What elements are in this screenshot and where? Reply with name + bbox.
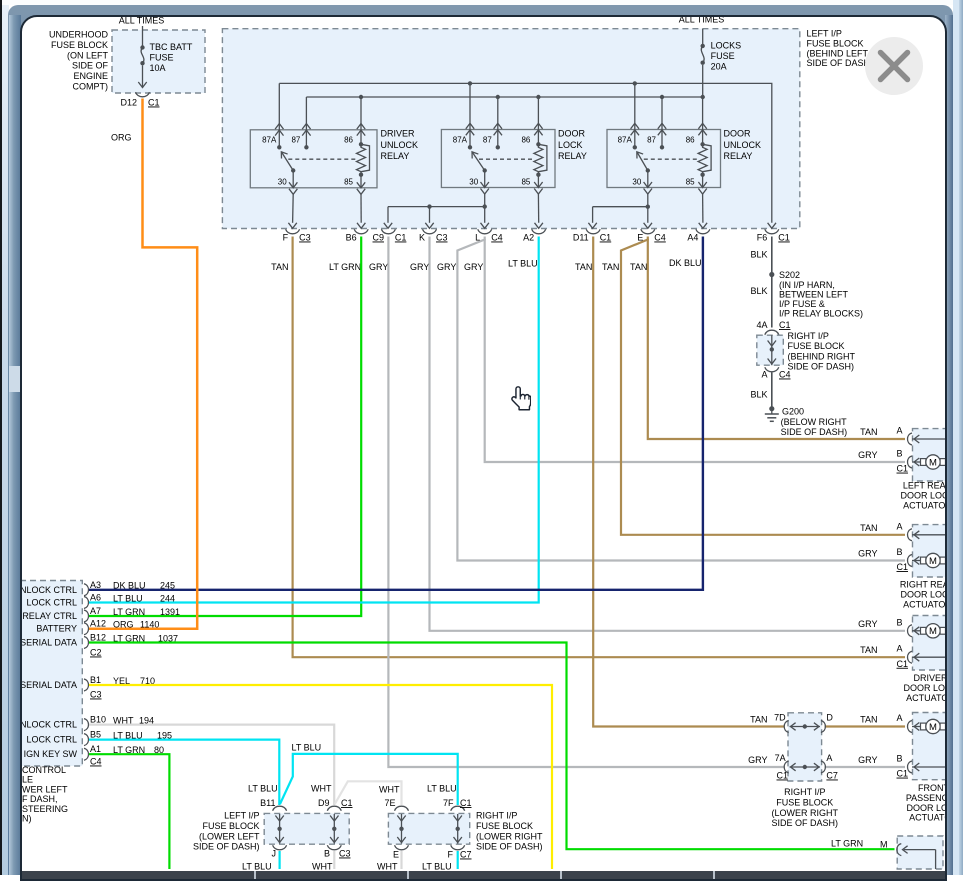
svg-text:(BELOW RIGHT: (BELOW RIGHT <box>781 417 848 427</box>
underhood fuse block box <box>112 30 205 93</box>
svg-text:ACTUATOR: ACTUATOR <box>906 693 945 703</box>
relay K2 (door lock) pin 30 exit <box>484 171 486 188</box>
wire LOCKS fuse to bus <box>702 65 704 97</box>
relay K3 (door unlock) pin 30 exit <box>647 171 649 188</box>
wire relay K1 pin85 to connector B6 <box>360 194 362 223</box>
svg-text:ORG: ORG <box>113 620 134 630</box>
svg-text:(LOWER LEFT: (LOWER LEFT <box>199 831 260 841</box>
right I/P fuse block (lower right) box <box>788 713 822 781</box>
wire DK BLU A4 to module A3 <box>89 237 703 590</box>
svg-text:C4: C4 <box>491 233 503 243</box>
svg-text:FUSE BLOCK: FUSE BLOCK <box>807 38 864 48</box>
svg-text:1140: 1140 <box>140 620 159 630</box>
wire WHT below B <box>333 851 335 869</box>
svg-text:C4: C4 <box>90 757 102 767</box>
svg-text:E: E <box>393 850 399 860</box>
svg-text:UNLOCK: UNLOCK <box>381 140 419 150</box>
svg-text:B6: B6 <box>346 233 357 243</box>
svg-text:85: 85 <box>344 178 353 187</box>
svg-text:30: 30 <box>278 178 287 187</box>
svg-text:RIGHT REAR: RIGHT REAR <box>900 580 945 590</box>
svg-text:GRY: GRY <box>369 262 388 272</box>
svg-text:C1: C1 <box>897 769 909 779</box>
wire TAN fuse block D to front passenger actuator A <box>825 725 905 727</box>
svg-text:B11: B11 <box>260 798 275 808</box>
svg-text:LEFT I/P: LEFT I/P <box>224 811 259 821</box>
svg-text:B1: B1 <box>90 675 101 685</box>
svg-text:LT BLU: LT BLU <box>427 784 457 794</box>
svg-text:87: 87 <box>291 136 300 145</box>
svg-text:ENGINE: ENGINE <box>73 71 108 81</box>
svg-text:M: M <box>929 556 937 567</box>
svg-text:C1: C1 <box>897 659 909 669</box>
svg-text:DOOR LOCK: DOOR LOCK <box>906 803 945 813</box>
svg-text:TAN: TAN <box>750 714 767 724</box>
svg-text:TAN: TAN <box>860 427 877 437</box>
svg-text:TAN: TAN <box>860 523 877 533</box>
svg-text:30: 30 <box>632 178 641 187</box>
svg-text:TAN: TAN <box>630 262 647 272</box>
svg-text:SIDE OF DASH): SIDE OF DASH) <box>788 362 855 372</box>
connector arc at x=484.7 (L/C4) <box>478 229 492 234</box>
connector arc at x=771.8 (F6/C1) <box>765 229 779 234</box>
svg-text:B10: B10 <box>90 715 106 725</box>
dialog frame left scrollbar patch <box>9 366 20 392</box>
svg-text:D11: D11 <box>573 233 589 243</box>
junction dots on 87A rail <box>468 81 472 85</box>
relay K2 (door lock) pin 86 and coil <box>537 97 539 144</box>
svg-text:WHT: WHT <box>379 785 400 795</box>
svg-text:S202: S202 <box>779 270 800 280</box>
svg-text:SIDE OF DASH): SIDE OF DASH) <box>781 427 848 437</box>
svg-text:87A: 87A <box>453 136 468 145</box>
wire YEL B1 down to bottom <box>89 685 552 869</box>
svg-text:C1: C1 <box>148 98 160 108</box>
svg-text:C1: C1 <box>460 798 472 808</box>
svg-text:245: 245 <box>160 581 175 591</box>
svg-text:LT GRN: LT GRN <box>831 839 863 849</box>
page background left black edge <box>0 0 2 875</box>
svg-text:A: A <box>896 713 902 723</box>
svg-text:85: 85 <box>521 178 530 187</box>
viewer bottom dark bar <box>22 871 945 879</box>
svg-text:TAN: TAN <box>860 715 877 725</box>
wire TAN D11/C1 to fuse block 7D <box>593 237 784 727</box>
svg-text:(BEHIND LEFT: (BEHIND LEFT <box>807 48 869 58</box>
svg-text:D: D <box>826 713 833 723</box>
svg-text:RIGHT I/P: RIGHT I/P <box>476 811 517 821</box>
svg-text:LT BLU: LT BLU <box>422 862 452 872</box>
wire BLK to ground G200 <box>771 373 773 408</box>
wire fuse to connector D12 <box>142 65 144 87</box>
svg-text:TAN: TAN <box>602 262 619 272</box>
wire GRY C1 to fuse block 7A <box>388 237 784 768</box>
svg-text:LOCK CTRL: LOCK CTRL <box>26 598 77 608</box>
svg-text:BLK: BLK <box>750 286 767 296</box>
svg-text:LOCK: LOCK <box>558 140 583 150</box>
front passenger door lock actuator motor symbol <box>921 723 926 730</box>
svg-text:(BEHIND RIGHT: (BEHIND RIGHT <box>788 351 856 361</box>
svg-text:DOOR LOCK: DOOR LOCK <box>903 683 945 693</box>
wire relay K2 pin30 junction branch <box>484 194 486 207</box>
wire from ALL TIMES into fuse block <box>142 26 144 46</box>
connector arc at x=388.4 (C1) <box>381 229 395 234</box>
wire relay K3 pin30 junction branch <box>647 194 649 207</box>
svg-text:SERIAL DATA: SERIAL DATA <box>22 638 77 648</box>
svg-text:G200: G200 <box>782 407 804 417</box>
svg-text:B: B <box>896 547 902 557</box>
svg-text:RIGHT I/P: RIGHT I/P <box>788 331 829 341</box>
svg-text:C2: C2 <box>90 648 102 658</box>
svg-text:ALL TIMES: ALL TIMES <box>679 17 725 25</box>
right I/P fuse block internal pin <box>771 335 773 365</box>
svg-text:SIDE OF: SIDE OF <box>72 61 109 71</box>
svg-text:F6: F6 <box>757 233 768 243</box>
relay K3 (door unlock) pin 85 exit <box>702 175 704 188</box>
svg-text:UNLOCK: UNLOCK <box>724 140 762 150</box>
svg-text:M: M <box>880 840 888 850</box>
relay K1 (driver unlock) box <box>250 130 377 188</box>
svg-text:ORG: ORG <box>111 133 132 143</box>
svg-text:COMPT): COMPT) <box>73 82 109 92</box>
svg-text:C9: C9 <box>373 233 385 243</box>
svg-text:LT BLU: LT BLU <box>292 743 322 753</box>
svg-text:FUSE BLOCK: FUSE BLOCK <box>476 821 533 831</box>
svg-text:RELAY CTRL: RELAY CTRL <box>22 611 77 621</box>
svg-text:ACTUATOR: ACTUATOR <box>903 501 945 511</box>
svg-text:10A: 10A <box>150 63 166 73</box>
right rear door lock actuator box <box>913 525 947 577</box>
svg-text:DOOR LOCK: DOOR LOCK <box>900 491 945 501</box>
right I/P fuse block (behind dash) box <box>757 335 784 365</box>
svg-text:IGN KEY SW: IGN KEY SW <box>24 749 78 759</box>
svg-text:FUSE BLOCK: FUSE BLOCK <box>51 40 108 50</box>
svg-text:WHT: WHT <box>311 784 332 794</box>
wire BLK S202 to 4A <box>771 277 773 328</box>
relay K2 (door lock) dashed linkage <box>479 158 534 160</box>
splice S202 <box>769 272 774 277</box>
svg-text:A3: A3 <box>90 580 101 590</box>
svg-text:GRY: GRY <box>748 755 767 765</box>
close button <box>865 37 923 95</box>
relay K1 (driver unlock) dashed linkage <box>288 158 357 160</box>
svg-text:C7: C7 <box>826 771 838 781</box>
svg-text:SIDE OF DASH): SIDE OF DASH) <box>772 818 839 828</box>
wire TAN F/C3 to driver actuator A <box>293 237 905 658</box>
wire WHT B10 to fuse block D9 <box>89 725 334 805</box>
svg-text:FUSE BLOCK: FUSE BLOCK <box>788 341 845 351</box>
svg-text:TAN: TAN <box>860 645 877 655</box>
svg-text:ALL TIMES: ALL TIMES <box>119 17 165 26</box>
svg-text:D9: D9 <box>318 798 330 808</box>
wire LT BLU A2 to module A6 <box>89 237 539 603</box>
driver door lock actuator motor symbol <box>921 627 926 634</box>
svg-text:7A: 7A <box>775 753 786 763</box>
wire LT BLU below F <box>457 851 459 869</box>
connector arc at x=292.6 (F/C3) <box>286 229 300 234</box>
junction dots on 87/86 rail <box>359 95 363 99</box>
svg-text:244: 244 <box>160 593 175 603</box>
svg-text:UNDERHOOD: UNDERHOOD <box>49 30 109 40</box>
svg-text:ACTUATOR: ACTUATOR <box>909 813 945 823</box>
svg-text:B: B <box>896 617 902 627</box>
relay K1 (driver unlock) pin 85 exit <box>360 175 362 188</box>
right I/P fuse block (bottom) pin at x=401.5 <box>395 806 409 811</box>
svg-text:GRY: GRY <box>437 262 456 272</box>
svg-text:DK BLU: DK BLU <box>669 258 702 268</box>
bus wire 87/86 rail <box>306 96 702 98</box>
svg-text:WER LEFT: WER LEFT <box>22 784 68 794</box>
right I/P fuse block (lower right) pin row 7A/A <box>784 761 789 773</box>
svg-text:LOCKS: LOCKS <box>711 41 742 51</box>
svg-text:LT BLU: LT BLU <box>242 862 272 872</box>
connector arcs above right I/P fuse block <box>765 330 779 335</box>
svg-text:GRY: GRY <box>410 262 429 272</box>
svg-text:N): N) <box>22 814 32 824</box>
svg-text:B5: B5 <box>90 730 101 740</box>
svg-text:LT BLU: LT BLU <box>113 593 143 603</box>
svg-text:RELAY: RELAY <box>381 151 410 161</box>
svg-text:UNLOCK CTRL: UNLOCK CTRL <box>22 585 77 595</box>
wire BLK F6 to S202 <box>771 237 773 273</box>
svg-text:LEFT I/P: LEFT I/P <box>807 29 842 39</box>
svg-text:30: 30 <box>469 178 478 187</box>
svg-text:A4: A4 <box>687 233 698 243</box>
wire GRY K/C3 to driver actuator B <box>430 237 906 631</box>
svg-text:FUSE: FUSE <box>150 52 174 62</box>
svg-text:SIDE OF DASH): SIDE OF DASH) <box>193 842 260 852</box>
svg-text:B: B <box>896 754 902 764</box>
svg-text:87: 87 <box>647 136 656 145</box>
svg-text:(ON LEFT: (ON LEFT <box>67 50 109 60</box>
svg-text:J: J <box>272 849 277 859</box>
connector arc at x=647.8 (E/C4) <box>641 229 655 234</box>
svg-text:7F: 7F <box>443 798 454 808</box>
svg-text:FUSE: FUSE <box>711 51 735 61</box>
wire LT GRN B6/C9 to module A7 <box>89 237 361 617</box>
svg-text:DRIVER: DRIVER <box>381 129 416 139</box>
right rear door lock actuator motor symbol <box>921 557 926 564</box>
svg-text:GRY: GRY <box>858 549 877 559</box>
svg-text:C4: C4 <box>779 370 791 380</box>
relay K3 (door unlock) dashed linkage <box>644 158 699 160</box>
svg-text:M: M <box>929 722 937 733</box>
svg-text:86: 86 <box>686 136 695 145</box>
relay K3 (door unlock) pin 87A <box>634 83 636 147</box>
svg-text:A: A <box>761 370 767 380</box>
connector arc at x=361.2 (B6/C9) <box>354 229 368 234</box>
right I/P fuse block (bottom) pin at x=457.7 <box>451 806 465 811</box>
svg-text:SERIAL DATA: SERIAL DATA <box>22 680 77 690</box>
left rear door lock actuator motor symbol <box>921 459 926 466</box>
svg-text:I/P RELAY BLOCKS): I/P RELAY BLOCKS) <box>779 309 863 319</box>
svg-text:4A: 4A <box>756 320 767 330</box>
svg-text:FUSE BLOCK: FUSE BLOCK <box>202 821 259 831</box>
svg-text:STEERING: STEERING <box>22 804 68 814</box>
svg-text:A: A <box>896 644 902 654</box>
svg-text:A7: A7 <box>90 606 101 616</box>
svg-text:A6: A6 <box>90 593 101 603</box>
svg-text:TBC BATT: TBC BATT <box>150 42 193 52</box>
svg-text:F: F <box>283 233 289 243</box>
svg-text:A2: A2 <box>523 233 534 243</box>
svg-text:DOOR: DOOR <box>558 129 586 139</box>
front passenger door lock actuator box <box>913 713 947 780</box>
svg-text:(LOWER RIGHT: (LOWER RIGHT <box>772 808 839 818</box>
svg-text:(LOWER RIGHT: (LOWER RIGHT <box>476 831 543 841</box>
right I/P fuse block (bottom) box <box>388 813 469 844</box>
svg-text:SIDE OF DASH): SIDE OF DASH) <box>807 58 874 68</box>
svg-text:DOOR: DOOR <box>724 129 752 139</box>
svg-text:GRY: GRY <box>858 450 877 460</box>
svg-text:A: A <box>826 753 832 763</box>
driver door lock actuator box <box>913 616 947 671</box>
connector arc at x=538.7 (A2) <box>532 229 546 234</box>
wire GRY L/C4 jog to right rear actuator B <box>457 237 905 561</box>
svg-text:FRONT: FRONT <box>918 783 945 793</box>
connector arcs below right I/P fuse block <box>765 367 779 372</box>
svg-text:PASSENGER: PASSENGER <box>906 793 945 803</box>
left rear door lock actuator box <box>913 429 947 481</box>
relay K2 (door lock) switch arm <box>483 168 487 172</box>
wire GRY fuse block A to front passenger actuator B <box>825 766 905 768</box>
svg-text:I/P FUSE &: I/P FUSE & <box>779 299 825 309</box>
svg-text:LT BLU: LT BLU <box>508 259 538 269</box>
relay K1 (driver unlock) pin 87 <box>305 97 307 147</box>
svg-text:C1: C1 <box>897 562 909 572</box>
svg-text:WHT: WHT <box>377 862 398 872</box>
wire GRY L/C4 to left rear actuator B <box>485 239 905 462</box>
svg-text:D12: D12 <box>120 98 137 108</box>
svg-text:7D: 7D <box>774 713 786 723</box>
svg-text:LE: LE <box>22 775 33 785</box>
svg-text:BETWEEN LEFT: BETWEEN LEFT <box>779 289 849 299</box>
svg-text:7E: 7E <box>384 798 395 808</box>
wire relay K2 pin85 to connector A2 <box>537 194 539 223</box>
left I/P fuse block (lower left) pin at x=279.6 <box>273 806 287 811</box>
svg-text:M: M <box>929 457 937 468</box>
svg-text:C3: C3 <box>436 233 448 243</box>
svg-text:FUSE BLOCK: FUSE BLOCK <box>776 797 833 807</box>
left I/P fuse block (lower left) pin at x=334.3 <box>327 806 341 811</box>
svg-text:RELAY: RELAY <box>558 151 587 161</box>
relay K3 (door unlock) box <box>607 130 721 188</box>
connector arc at x=702.9 (A4) <box>696 229 710 234</box>
svg-text:SIDE OF DASH): SIDE OF DASH) <box>476 842 543 852</box>
svg-text:B: B <box>896 449 902 459</box>
svg-text:DK BLU: DK BLU <box>113 581 146 591</box>
svg-text:86: 86 <box>521 136 530 145</box>
svg-text:C3: C3 <box>339 849 351 859</box>
relay K2 (door lock) box <box>441 130 555 188</box>
svg-text:87A: 87A <box>262 136 277 145</box>
relay K1 (driver unlock) pin 30 exit <box>292 171 294 188</box>
svg-text:A: A <box>896 426 902 436</box>
wire ALL TIMES to LOCKS fuse <box>702 29 704 44</box>
svg-text:TAN: TAN <box>271 262 288 272</box>
svg-text:DRIVER: DRIVER <box>913 673 945 683</box>
fuse LOCKS FUSE 20A <box>701 44 705 48</box>
keyless entry module box (bottom right) <box>897 836 943 869</box>
svg-text:F: F <box>448 850 454 860</box>
dialog frame left strip shading <box>9 15 21 875</box>
wire TAN E/C4 jog to right rear actuator A <box>621 237 905 535</box>
svg-text:C1: C1 <box>600 233 612 243</box>
svg-text:BATTERY: BATTERY <box>36 624 77 634</box>
connector arc at x=593.2 (D11/C1) <box>586 229 600 234</box>
bus wire 87A rail to F6 <box>279 83 772 222</box>
wire LT GRN B12 to keyless module M <box>89 643 895 850</box>
svg-text:(IN I/P HARN,: (IN I/P HARN, <box>779 280 835 290</box>
svg-text:1391: 1391 <box>160 607 180 617</box>
right I/P fuse block (lower right) pin row 7D/D <box>784 721 789 733</box>
dialog frame right strip shading <box>945 15 953 875</box>
svg-text:87A: 87A <box>618 136 633 145</box>
ground G200 <box>769 406 774 411</box>
svg-text:DOOR LOCK: DOOR LOCK <box>900 590 945 600</box>
svg-text:LT GRN: LT GRN <box>113 607 145 617</box>
svg-text:K: K <box>419 233 425 243</box>
svg-text:C1: C1 <box>395 233 407 243</box>
relay compartment large dashed box <box>222 29 799 229</box>
relay K3 (door unlock) pin 86 and coil <box>702 97 704 144</box>
wire relay K3 pin85 to connector A4 <box>702 194 704 223</box>
svg-text:GRY: GRY <box>858 619 877 629</box>
svg-text:CONTROL: CONTROL <box>22 765 66 775</box>
svg-text:LEFT REAR: LEFT REAR <box>903 481 945 491</box>
wire TAN E/C4 to left rear actuator A <box>648 239 905 439</box>
svg-text:C3: C3 <box>90 690 102 700</box>
svg-text:C1: C1 <box>897 464 909 474</box>
relay K1 (driver unlock) switch arm <box>291 168 295 172</box>
page right outer strips <box>953 0 963 875</box>
svg-text:C3: C3 <box>299 233 311 243</box>
svg-text:ACTUATOR: ACTUATOR <box>903 600 945 610</box>
svg-text:85: 85 <box>686 178 695 187</box>
relay K2 (door lock) pin 87 <box>497 97 499 147</box>
relay K1 (driver unlock) pin 87A <box>278 83 280 147</box>
svg-text:GRY: GRY <box>858 755 877 765</box>
svg-text:B: B <box>324 849 330 859</box>
svg-text:BLK: BLK <box>750 390 767 400</box>
svg-text:C7: C7 <box>460 850 472 860</box>
svg-text:F DASH,: F DASH, <box>22 794 58 804</box>
wire LT BLU below J <box>279 851 281 869</box>
svg-text:GRY: GRY <box>464 262 483 272</box>
relay K1 (driver unlock) pin 86 and coil <box>360 97 362 144</box>
svg-text:C4: C4 <box>654 233 666 243</box>
svg-text:M: M <box>929 626 937 637</box>
svg-text:A: A <box>896 521 902 531</box>
svg-text:BLK: BLK <box>750 250 767 260</box>
left I/P fuse block (lower left) box <box>264 813 349 844</box>
svg-text:WHT: WHT <box>312 862 333 872</box>
svg-text:C1: C1 <box>777 771 789 781</box>
svg-text:LOCK CTRL: LOCK CTRL <box>26 735 77 745</box>
svg-text:87: 87 <box>483 136 492 145</box>
svg-text:A12: A12 <box>90 619 106 629</box>
svg-text:A1: A1 <box>90 744 101 754</box>
fuse TBC BATT FUSE 10A <box>140 45 144 49</box>
wire LT GRN A1 down to bottom <box>89 754 169 869</box>
relay K3 (door unlock) switch arm <box>646 168 650 172</box>
relay K2 (door lock) pin 87A <box>469 83 471 147</box>
svg-text:RELAY: RELAY <box>724 151 753 161</box>
svg-text:86: 86 <box>344 136 353 145</box>
svg-text:TAN: TAN <box>575 262 592 272</box>
wire WHT below E <box>400 851 402 869</box>
svg-text:20A: 20A <box>711 61 727 71</box>
